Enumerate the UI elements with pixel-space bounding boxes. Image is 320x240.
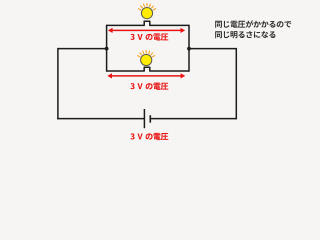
voltage arrow top (3V across lamp L1) — [111, 29, 182, 31]
node B (right junction dot) — [187, 47, 191, 51]
note: 同じ電圧がかかるので 同じ明るさになる — [215, 20, 291, 38]
wire: right stub from node B — [189, 48, 236, 50]
label: 3 V の電圧 (battery) — [130, 133, 168, 140]
wire: bottom left to battery — [57, 118, 144, 120]
voltage arrow middle (3V across lamp L2) — [111, 75, 182, 77]
wire: right outer vertical — [235, 48, 237, 119]
label: 3 V の電圧 (top branch) — [130, 33, 168, 40]
lamp L1 — [138, 4, 155, 19]
battery long plate (+) — [143, 109, 145, 128]
node A (left junction dot) — [105, 47, 109, 51]
wire: middle branch with lamp L2 socket bump — [107, 67, 189, 71]
wire: left vertical of parallel section — [106, 25, 108, 72]
lamp L2 — [138, 50, 155, 65]
wire: top branch with lamp L1 socket bump — [107, 21, 189, 25]
wire: left outer vertical — [57, 48, 59, 119]
wire: left stub from node A — [58, 48, 107, 50]
wire: bottom right from battery — [150, 118, 237, 120]
wire: right vertical of parallel section — [188, 25, 190, 72]
battery short plate (-) — [149, 115, 151, 123]
label: 3 V の電圧 (middle branch) — [130, 83, 168, 90]
